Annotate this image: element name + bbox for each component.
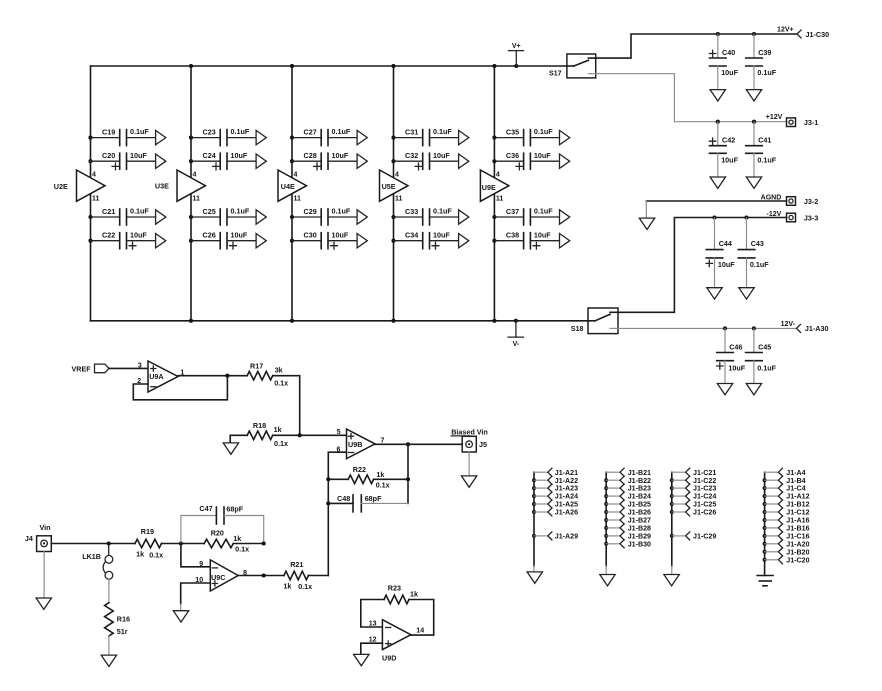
connector pin J1-A25: [532, 500, 578, 509]
svg-text:C38: C38: [506, 231, 519, 240]
resistor R22 1k: [328, 465, 408, 489]
svg-text:J1-C23: J1-C23: [693, 485, 716, 493]
connector pin J1-B12: [763, 500, 810, 509]
svg-text:0.1uF: 0.1uF: [332, 127, 351, 136]
capacitor C19 0.1uF: [88, 127, 165, 145]
wire connector group bus: [533, 472, 535, 566]
connector pin J1-C12: [763, 508, 810, 517]
junction: [262, 541, 266, 545]
svg-text:J3-2: J3-2: [804, 197, 818, 206]
svg-text:1k: 1k: [136, 550, 144, 559]
capacitor C40 10uF: [709, 32, 738, 101]
capacitor C24 10uF: [189, 151, 266, 170]
connector pin J1-B24: [604, 492, 651, 501]
op-amp U3E power pins: [155, 170, 206, 203]
junction: [492, 64, 496, 68]
connector pin J1-C24: [670, 492, 717, 501]
resistor R18 1k: [247, 421, 288, 448]
junction: [326, 501, 330, 505]
svg-text:C35: C35: [506, 127, 519, 136]
svg-text:R18: R18: [253, 421, 266, 430]
svg-text:9: 9: [199, 561, 203, 568]
connector pin J1-C16: [763, 532, 810, 541]
svg-text:C44: C44: [719, 239, 732, 248]
connector pin J1-C4: [763, 484, 806, 493]
svg-text:0.1uF: 0.1uF: [231, 127, 250, 136]
ground: [664, 575, 679, 586]
svg-text:J1-B29: J1-B29: [628, 533, 651, 541]
svg-text:J1-A24: J1-A24: [555, 493, 578, 501]
svg-text:J1-C26: J1-C26: [693, 509, 716, 517]
svg-text:C36: C36: [506, 151, 519, 160]
op-amp U9D: [369, 620, 424, 663]
svg-text:14: 14: [416, 628, 424, 635]
connector pin J1-A22: [532, 476, 578, 485]
connector pin J1-C20: [763, 556, 810, 565]
svg-text:C23: C23: [203, 127, 216, 136]
svg-text:J1-C29: J1-C29: [693, 533, 716, 541]
svg-text:J1-C30: J1-C30: [806, 30, 830, 39]
connector pin J1-B20: [763, 548, 810, 557]
svg-text:+12V: +12V: [766, 114, 783, 121]
wire bottom power bus V-: [91, 320, 589, 322]
capacitor C21 0.1uF: [88, 207, 165, 225]
svg-text:U9E: U9E: [482, 183, 496, 192]
wire U9C output: [238, 575, 284, 577]
connector pin J1-B30: [604, 540, 651, 549]
connector pin J1-B27: [604, 516, 651, 525]
op-amp U5E power pins: [380, 170, 409, 203]
earth ground symbol: [757, 576, 773, 586]
capacitor C48 68pF: [328, 494, 408, 512]
svg-text:C31: C31: [405, 127, 418, 136]
svg-text:J1-A25: J1-A25: [555, 501, 578, 509]
svg-text:C21: C21: [102, 207, 115, 216]
capacitor C38 10uF: [492, 230, 569, 249]
svg-text:J1-B20: J1-B20: [786, 548, 809, 556]
wire S18 lower contact to 12V- rail: [618, 327, 796, 329]
junction: [225, 374, 229, 378]
wire S17 lower contact to +12V rail: [596, 74, 787, 122]
junction: [391, 319, 395, 323]
ground: [600, 575, 615, 586]
capacitor C37 0.1uF: [492, 207, 569, 225]
ground for R18: [223, 435, 247, 454]
capacitor C25 0.1uF: [189, 207, 266, 225]
connector pin J1-A4: [765, 468, 806, 477]
svg-text:C48: C48: [337, 494, 350, 503]
node V-: [508, 319, 524, 348]
svg-text:C46: C46: [729, 342, 742, 351]
capacitor C41 0.1uF: [746, 120, 777, 189]
svg-text:12V-: 12V-: [781, 321, 796, 328]
svg-text:J5: J5: [479, 440, 487, 449]
wire vertical bus x=191: [190, 66, 192, 321]
svg-text:C27: C27: [304, 127, 317, 136]
svg-text:10uF: 10uF: [433, 151, 450, 160]
connector pin J1-C25: [670, 500, 717, 509]
svg-text:10uF: 10uF: [433, 230, 450, 239]
wire S17 upper contact to 12V+ rail: [596, 34, 797, 58]
connector pin J1-B29: [604, 532, 651, 541]
op-amp U2E power pins: [54, 170, 105, 203]
capacitor C35 0.1uF: [492, 127, 569, 145]
op-amp U9B: [336, 429, 384, 459]
switch S17: [549, 54, 596, 78]
svg-text:1k: 1k: [376, 470, 384, 479]
connector pin J1-B4: [763, 476, 806, 485]
svg-text:1k: 1k: [233, 534, 241, 543]
svg-text:10uF: 10uF: [721, 68, 738, 77]
svg-text:J4: J4: [25, 534, 33, 543]
svg-text:J1-C22: J1-C22: [693, 477, 716, 485]
connector pin J1-C21: [672, 468, 717, 477]
junction: [406, 442, 410, 446]
wire R17 to node: [273, 376, 300, 436]
wire J4 to R19: [51, 543, 135, 545]
connector J3-2: [787, 197, 819, 206]
capacitor C43 0.1uF: [738, 215, 769, 299]
resistor R16 51r: [105, 579, 130, 636]
svg-text:0.1uF: 0.1uF: [231, 207, 250, 216]
capacitor C26 10uF: [189, 230, 266, 249]
svg-text:C19: C19: [102, 127, 115, 136]
ground on AGND rail: [639, 201, 654, 230]
resistor R17 3k: [247, 361, 288, 387]
svg-text:Biased Vin: Biased Vin: [451, 427, 488, 436]
jumper link LK1B: [82, 544, 113, 580]
svg-text:11: 11: [92, 196, 100, 203]
junction: [262, 573, 266, 577]
svg-text:0.1uF: 0.1uF: [130, 207, 149, 216]
svg-text:R17: R17: [250, 361, 263, 370]
connector J3-1: [787, 118, 819, 127]
wire U9A output: [178, 375, 247, 377]
svg-text:3k: 3k: [275, 365, 283, 374]
svg-text:0.1uF: 0.1uF: [433, 207, 452, 216]
svg-text:U9A: U9A: [149, 372, 163, 381]
svg-text:0.1uF: 0.1uF: [757, 156, 776, 165]
svg-text:0.1uF: 0.1uF: [757, 68, 776, 77]
connector terminal J1-C30: [797, 30, 829, 39]
capacitor C47 68pF: [181, 504, 264, 544]
svg-text:J3-3: J3-3: [804, 214, 818, 223]
resistor R19 1k: [135, 527, 181, 559]
svg-text:0.1uF: 0.1uF: [433, 127, 452, 136]
ground for U9D: [354, 654, 369, 665]
connector pin J1-B22: [604, 476, 651, 485]
svg-text:C30: C30: [304, 231, 317, 240]
wire to U9C pin9: [181, 544, 210, 567]
connector J4 Vin: [25, 523, 51, 551]
connector pin J1-A20: [763, 540, 810, 549]
capacitor C36 10uF: [492, 151, 569, 170]
svg-text:J1-B28: J1-B28: [628, 525, 651, 533]
svg-text:11: 11: [496, 196, 504, 203]
junction: [406, 477, 410, 481]
svg-text:U9C: U9C: [211, 573, 225, 582]
svg-text:4: 4: [294, 172, 298, 179]
svg-text:J1-B25: J1-B25: [628, 501, 651, 509]
svg-text:10uF: 10uF: [728, 363, 745, 372]
connector pin J1-B25: [604, 500, 651, 509]
svg-text:68pF: 68pF: [226, 505, 243, 514]
capacitor C42 10uF: [709, 120, 738, 189]
svg-text:68pF: 68pF: [365, 494, 382, 503]
connector terminal J1-A30: [796, 324, 828, 333]
svg-text:J1-A23: J1-A23: [555, 485, 578, 493]
svg-text:0.1x: 0.1x: [235, 545, 249, 554]
svg-text:J1-B4: J1-B4: [786, 477, 805, 485]
connector pin J1-B21: [606, 468, 651, 477]
svg-text:C37: C37: [506, 207, 519, 216]
svg-text:0.1x: 0.1x: [149, 550, 163, 559]
svg-text:0.1uF: 0.1uF: [534, 127, 553, 136]
svg-text:C47: C47: [199, 504, 212, 513]
svg-text:J1-A26: J1-A26: [555, 509, 578, 517]
svg-text:R23: R23: [388, 584, 401, 593]
svg-text:Vin: Vin: [40, 523, 51, 532]
wire VREF to U9A pin3: [109, 367, 148, 369]
op-amp U9E power pins: [480, 170, 509, 203]
svg-text:J1-A21: J1-A21: [555, 469, 578, 477]
svg-text:10uF: 10uF: [534, 230, 551, 239]
connector pin J1-A12: [763, 492, 810, 501]
wire U9B output to J5: [375, 443, 462, 445]
svg-text:4: 4: [496, 172, 500, 179]
connector pin J1-A21: [534, 468, 578, 477]
svg-text:0.1x: 0.1x: [298, 582, 312, 591]
svg-text:J1-C20: J1-C20: [786, 556, 809, 564]
svg-text:R22: R22: [353, 465, 366, 474]
capacitor C32 10uF: [391, 151, 468, 170]
wire connector group bus: [764, 472, 766, 575]
svg-text:U5E: U5E: [382, 182, 396, 191]
connector pin J1-A24: [532, 492, 578, 501]
connector J3-3: [787, 213, 819, 222]
svg-text:12V+: 12V+: [777, 27, 794, 34]
capacitor C44 10uF: [706, 215, 735, 299]
svg-text:U3E: U3E: [155, 181, 169, 190]
svg-text:J3-1: J3-1: [804, 118, 818, 127]
wire vertical bus x=494.4: [493, 66, 495, 321]
connector pin J1-A29: [532, 532, 578, 541]
svg-text:0.1x: 0.1x: [274, 439, 288, 448]
svg-text:U9D: U9D: [382, 653, 396, 662]
wire vertical bus x=90.5: [90, 66, 92, 321]
op-amp U9A: [137, 361, 184, 392]
resistor R21 1k: [283, 560, 328, 591]
svg-text:1k: 1k: [410, 589, 418, 598]
svg-text:J1-A20: J1-A20: [786, 540, 809, 548]
wire feedback vertical: [407, 444, 409, 503]
svg-text:C24: C24: [203, 151, 216, 160]
svg-text:10uF: 10uF: [721, 156, 738, 165]
svg-text:J1-B30: J1-B30: [628, 540, 651, 548]
connector pin J1-B16: [763, 524, 810, 533]
junction: [298, 433, 302, 437]
wire U9D pin12 to ground: [361, 643, 383, 654]
svg-text:0.1uF: 0.1uF: [534, 207, 553, 216]
capacitor C20 10uF: [88, 151, 165, 170]
svg-text:10uF: 10uF: [718, 260, 735, 269]
svg-text:51r: 51r: [117, 627, 128, 636]
svg-text:4: 4: [92, 172, 96, 179]
svg-text:J1-B26: J1-B26: [628, 509, 651, 517]
wire vertical bus x=393.5: [393, 66, 395, 321]
svg-text:10uF: 10uF: [130, 230, 147, 239]
connector pin J1-B23: [604, 484, 651, 493]
svg-text:C33: C33: [405, 207, 418, 216]
wire S18 upper contact to -12V rail: [618, 218, 787, 313]
capacitor C31 0.1uF: [391, 127, 468, 145]
ground for J4: [36, 552, 51, 610]
connector pin J1-A23: [532, 484, 578, 493]
svg-text:C25: C25: [203, 207, 216, 216]
svg-text:C28: C28: [304, 151, 317, 160]
svg-text:J1-C12: J1-C12: [786, 509, 809, 517]
svg-text:0.1x: 0.1x: [376, 481, 390, 490]
svg-text:J1-B24: J1-B24: [628, 493, 651, 501]
capacitor C23 0.1uF: [189, 127, 266, 145]
capacitor C30 10uF: [290, 230, 367, 249]
svg-text:J1-A16: J1-A16: [786, 517, 809, 525]
svg-text:C39: C39: [758, 48, 771, 57]
svg-text:0.1uF: 0.1uF: [750, 260, 769, 269]
svg-text:C29: C29: [304, 207, 317, 216]
junction: [391, 64, 395, 68]
svg-text:C41: C41: [758, 136, 771, 145]
svg-text:3: 3: [138, 362, 142, 369]
svg-text:U4E: U4E: [281, 182, 295, 191]
capacitor C46 10uF: [717, 326, 746, 395]
connector pin J1-B28: [604, 524, 651, 533]
wire U9C pin10 to ground: [181, 583, 211, 604]
svg-text:11: 11: [294, 196, 302, 203]
junction: [107, 541, 111, 545]
svg-text:U9B: U9B: [348, 440, 362, 449]
svg-text:0.1uF: 0.1uF: [757, 363, 776, 372]
svg-text:VREF: VREF: [72, 364, 92, 373]
svg-text:4: 4: [193, 172, 197, 179]
ground: [527, 572, 542, 583]
svg-text:J1-A12: J1-A12: [786, 493, 809, 501]
wire connector group bus: [671, 472, 673, 566]
svg-text:J1-A30: J1-A30: [805, 324, 829, 333]
wire top power bus V+: [91, 65, 567, 67]
op-amp U4E power pins: [278, 170, 307, 203]
svg-text:J1-B22: J1-B22: [628, 477, 651, 485]
svg-text:5: 5: [337, 429, 341, 436]
svg-text:AGND: AGND: [761, 194, 782, 201]
junction: [492, 319, 496, 323]
junction: [326, 477, 330, 481]
node VREF input tag: [72, 364, 110, 373]
junction: [290, 64, 294, 68]
capacitor C27 0.1uF: [290, 127, 367, 145]
svg-text:0.1x: 0.1x: [274, 378, 288, 387]
svg-text:C22: C22: [102, 231, 115, 240]
svg-text:U2E: U2E: [54, 182, 68, 191]
svg-text:V+: V+: [512, 43, 521, 50]
wire AGND rail: [646, 200, 786, 202]
capacitor C39 0.1uF: [746, 32, 777, 101]
svg-text:1k: 1k: [283, 581, 291, 590]
capacitor C34 10uF: [391, 230, 468, 249]
svg-text:J1-C21: J1-C21: [693, 469, 716, 477]
ground for U9C pin10: [173, 604, 188, 622]
svg-text:10uF: 10uF: [534, 151, 551, 160]
svg-text:10uF: 10uF: [332, 230, 349, 239]
svg-text:S18: S18: [571, 326, 584, 333]
wire vertical bus x=292: [291, 66, 293, 321]
svg-text:C20: C20: [102, 151, 115, 160]
switch S18: [571, 308, 618, 334]
svg-text:J1-C24: J1-C24: [693, 493, 716, 501]
connector pin J1-A16: [763, 516, 810, 525]
svg-text:11: 11: [193, 196, 201, 203]
connector J5 Biased Vin: [451, 427, 488, 452]
svg-text:J1-C25: J1-C25: [693, 501, 716, 509]
svg-text:J1-A29: J1-A29: [555, 533, 578, 541]
connector pin J1-C23: [670, 484, 717, 493]
svg-text:J1-C4: J1-C4: [786, 485, 805, 493]
node V+: [509, 43, 524, 68]
svg-text:S17: S17: [549, 71, 562, 78]
svg-text:10uF: 10uF: [130, 151, 147, 160]
wire U9A pin2 feedback: [133, 376, 227, 400]
svg-text:C26: C26: [203, 231, 216, 240]
svg-text:R20: R20: [211, 528, 224, 537]
op-amp U9C: [195, 560, 247, 591]
connector pin J1-A26: [532, 508, 578, 517]
svg-text:11: 11: [395, 196, 403, 203]
wire U9B pin6: [328, 452, 346, 575]
svg-text:10uF: 10uF: [231, 230, 248, 239]
connector pin J1-C29: [670, 532, 717, 541]
svg-text:J1-B12: J1-B12: [786, 501, 809, 509]
svg-text:1k: 1k: [274, 425, 282, 434]
svg-text:C34: C34: [405, 231, 418, 240]
svg-text:J1-B16: J1-B16: [786, 525, 809, 533]
svg-text:C32: C32: [405, 151, 418, 160]
svg-text:J1-A22: J1-A22: [555, 477, 578, 485]
connector pin J1-C26: [670, 508, 717, 517]
svg-text:4: 4: [395, 172, 399, 179]
svg-text:13: 13: [369, 620, 377, 627]
svg-text:J1-C16: J1-C16: [786, 533, 809, 541]
svg-text:-12V: -12V: [767, 211, 782, 218]
capacitor C22 10uF: [88, 230, 165, 249]
svg-text:V-: V-: [513, 341, 520, 348]
svg-text:C45: C45: [758, 342, 771, 351]
capacitor C45 0.1uF: [746, 326, 777, 395]
resistor R20 1k: [181, 528, 264, 553]
capacitor C33 0.1uF: [391, 207, 468, 225]
svg-text:R21: R21: [290, 560, 303, 569]
svg-text:J1-B21: J1-B21: [628, 469, 651, 477]
capacitor C29 0.1uF: [290, 207, 367, 225]
connector pin J1-B26: [604, 508, 651, 517]
ground for J5: [461, 452, 476, 487]
ground for R16: [101, 636, 116, 667]
svg-text:J1-A4: J1-A4: [786, 469, 805, 477]
svg-text:10uF: 10uF: [332, 151, 349, 160]
junction node A: [179, 541, 183, 545]
svg-text:J1-B27: J1-B27: [628, 517, 651, 525]
svg-text:0.1uF: 0.1uF: [130, 127, 149, 136]
svg-text:C42: C42: [722, 136, 735, 145]
